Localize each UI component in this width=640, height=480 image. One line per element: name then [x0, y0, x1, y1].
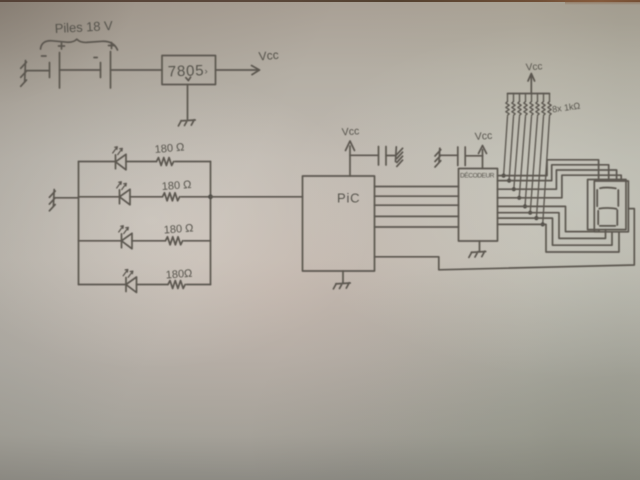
label PIC — [337, 191, 360, 206]
svg-text:›: › — [205, 66, 208, 77]
svg-text:180 Ω: 180 Ω — [154, 141, 185, 156]
wire R2 to right bus — [181, 196, 211, 198]
ground below regulator — [178, 120, 195, 126]
wire decoder VCC stem — [482, 150, 484, 169]
regulator U1 7805 box — [162, 56, 216, 85]
wire R4 to right bus — [187, 284, 211, 286]
resistor RN1-2 1k — [507, 94, 515, 183]
LED D2 — [117, 182, 130, 205]
wire PIC to decoder pin4 — [375, 215, 459, 217]
segment middle — [599, 207, 616, 210]
resistor R1 180 — [157, 158, 174, 166]
svg-text:Vcc: Vcc — [341, 125, 359, 138]
arrowhead PIC VCC — [346, 141, 355, 151]
wire battery to regulator — [111, 69, 163, 71]
arrowhead network VCC — [528, 74, 535, 82]
svg-text:180 Ω: 180 Ω — [163, 222, 193, 236]
ground below PIC — [333, 283, 350, 289]
segment top — [600, 187, 616, 190]
ground left of LED array — [49, 190, 55, 211]
wire decoder out8 to display — [498, 224, 620, 252]
resistor RN1-6 1k — [528, 94, 539, 215]
resistor R3 180 — [166, 237, 183, 245]
arrowhead decoder VCC — [479, 146, 487, 154]
resistor R2 180 — [163, 193, 180, 201]
segment lower-left — [597, 211, 599, 224]
LED D1 — [113, 147, 126, 170]
node LED bus junction — [208, 194, 213, 199]
display DS1 box — [588, 180, 626, 230]
resistor RN1-1 1k — [502, 94, 510, 178]
label 7805 — [168, 62, 208, 80]
svg-text:Vcc: Vcc — [258, 48, 279, 64]
wire D4 to R4 — [137, 284, 169, 286]
label DECODEUR — [460, 171, 495, 180]
arrowhead VCC output — [252, 66, 260, 75]
wire PIC to decoder pin3 — [375, 204, 459, 206]
wire C1 to ground — [386, 155, 396, 157]
wire decoder out7 to display — [498, 218, 613, 245]
ground left of C2 — [435, 148, 441, 167]
wire PIC to decoder pin1 — [375, 186, 459, 188]
LED D3 — [119, 226, 132, 249]
wire battery input — [25, 70, 49, 72]
ground below decoder — [469, 251, 486, 257]
wire branch1 left — [79, 161, 116, 163]
wire D1 to R1 — [126, 161, 157, 163]
segment upper-left — [596, 190, 598, 206]
resistor RN1-7 1k — [534, 94, 545, 221]
wire left bus — [78, 162, 80, 285]
wire right bus — [210, 162, 212, 285]
label 8x1k — [551, 101, 581, 115]
wire PIC common to display — [375, 209, 635, 270]
label VCC output — [258, 48, 279, 64]
wire decoder out3 to display — [498, 170, 617, 189]
segment lower-right — [616, 210, 618, 225]
wire decoder out1 to display — [498, 160, 599, 180]
wire branch2 left — [79, 196, 120, 198]
wire branch4 left — [79, 284, 127, 286]
segment upper-right — [617, 190, 619, 206]
wire PIC VCC stem — [349, 146, 351, 176]
wire decoder VCC to C2 — [466, 155, 483, 157]
label VCC PIC — [341, 125, 359, 138]
segment bottom — [600, 225, 616, 227]
wire network VCC stem — [530, 76, 532, 94]
label VCC decoder — [474, 130, 492, 143]
label R4 180ohm — [165, 268, 192, 282]
wire regulator ground stem — [186, 77, 191, 119]
label R2 180ohm — [161, 179, 191, 193]
display DS1 box offset — [594, 181, 628, 232]
label VCC resistor network — [525, 61, 542, 73]
svg-text:Vcc: Vcc — [474, 130, 492, 143]
capacitor C1 — [379, 147, 387, 166]
wire decoder out2 to display — [498, 165, 609, 181]
wire PIC to decoder pin2 — [375, 195, 459, 197]
ground left of battery pack — [21, 61, 27, 87]
wire decoder out4 to display — [498, 175, 622, 198]
svg-text:PiC: PiC — [337, 191, 360, 206]
svg-text:Piles 18 V: Piles 18 V — [54, 18, 113, 36]
svg-text:Vcc: Vcc — [525, 61, 542, 73]
wire PIC to decoder pin5 — [375, 226, 459, 228]
svg-text:8x 1kΩ: 8x 1kΩ — [551, 101, 581, 115]
wire ground to left bus — [54, 197, 79, 199]
wire D3 to R3 — [132, 240, 166, 242]
wire R1 to right bus — [175, 161, 211, 163]
wire PIC VCC to C1 — [350, 154, 378, 156]
resistor RN1-5 1k — [523, 94, 533, 209]
microcontroller U2 PIC box — [303, 176, 375, 271]
label R1 180ohm — [154, 141, 185, 156]
wire decoder out6 to display — [498, 213, 606, 239]
wire network top bar — [508, 93, 550, 95]
ground right of C1 — [396, 147, 403, 167]
capacitor C2 — [458, 147, 465, 166]
battery B2 — [94, 43, 115, 89]
svg-text:180Ω: 180Ω — [165, 268, 192, 282]
wire R3 to right bus — [184, 240, 211, 242]
wire decoder ground stem — [479, 241, 481, 251]
wire D2 to R2 — [130, 196, 163, 198]
resistor RN1-4 1k — [517, 94, 527, 200]
svg-text:180 Ω: 180 Ω — [161, 179, 191, 193]
label Piles 18 V — [54, 18, 113, 36]
resistor RN1-3 1k — [512, 94, 522, 192]
wire between batteries — [60, 69, 101, 71]
wire PIC ground stem — [342, 271, 344, 283]
decoder U3 box — [459, 169, 498, 242]
resistor R4 180 — [168, 281, 185, 289]
battery B1 — [42, 43, 65, 88]
wire branch3 left — [79, 240, 122, 242]
LED D4 — [123, 270, 136, 293]
brace under label — [41, 39, 118, 50]
resistor RN1-8 1k — [541, 94, 552, 227]
wire C2 to ground — [440, 154, 458, 156]
label R3 180ohm — [163, 222, 193, 236]
wire LED array to PIC — [211, 196, 303, 198]
svg-text:DÉCODEUR: DÉCODEUR — [460, 171, 495, 180]
wire regulator output — [216, 69, 258, 71]
wire decoder out5 to display — [498, 206, 600, 231]
